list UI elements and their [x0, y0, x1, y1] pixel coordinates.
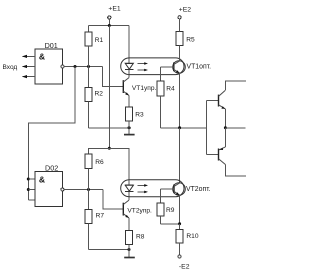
- node dot D02 output / R6 / R7: [87, 188, 90, 191]
- svg-text:VT2опт.: VT2опт.: [186, 186, 211, 193]
- D02 input pin 3: [28, 199, 35, 201]
- D01 input pin 1 with arrow: [22, 55, 35, 58]
- svg-text:R3: R3: [135, 112, 144, 119]
- wire output base bus: [206, 101, 208, 155]
- transistor VT2упр: [123, 192, 152, 231]
- node dot VT1опт emitter / VT2опт collector: [178, 126, 181, 129]
- wire bottom ground rail: [89, 249, 130, 251]
- node dot D01 output to D02: [74, 65, 77, 68]
- optocoupler 1 body: [121, 58, 184, 75]
- svg-text:R4: R4: [166, 85, 175, 92]
- node dot +E1 lower branch: [108, 147, 111, 150]
- optocoupler 2 body: [121, 180, 184, 197]
- svg-text:R5: R5: [186, 36, 195, 43]
- resistor R9: [157, 203, 175, 224]
- svg-text:-E2: -E2: [179, 263, 190, 270]
- D01 input pin 2 with arrow: [22, 65, 35, 68]
- resistor R10: [176, 224, 199, 255]
- resistor R5: [176, 32, 195, 61]
- wire +E1 down to LED1 anode: [128, 26, 130, 64]
- svg-text:VT1упр.: VT1упр.: [132, 85, 157, 92]
- wire Z-bend D02 output to VT2upr base: [103, 190, 123, 210]
- svg-text:R9: R9: [166, 207, 175, 214]
- resistor R2: [85, 67, 103, 128]
- svg-text:VT1опт.: VT1опт.: [187, 64, 212, 71]
- transistor Q4 output bottom: [207, 128, 247, 176]
- ground symbol 1: [124, 128, 135, 135]
- D02 input pin 1: [28, 178, 35, 180]
- wire +E1 rail horizontal: [89, 25, 130, 27]
- svg-text:R8: R8: [136, 233, 145, 240]
- transistor Q3 output top: [207, 81, 247, 128]
- gate D01: [35, 41, 64, 84]
- resistor R4: [157, 81, 175, 128]
- supply +E1 terminal: [108, 5, 121, 25]
- node dot VT2опт emitter / R10: [178, 222, 181, 225]
- svg-text:&: &: [39, 52, 45, 62]
- svg-text:R1: R1: [95, 37, 104, 44]
- svg-text:D02: D02: [45, 164, 58, 173]
- svg-text:VT2упр.: VT2упр.: [127, 207, 152, 214]
- svg-text:&: &: [39, 174, 45, 184]
- wire output middle: [225, 127, 245, 129]
- wire VT1опт emitter down: [179, 73, 181, 128]
- wire VT2опт collector up: [179, 128, 181, 183]
- resistor R6: [85, 154, 104, 190]
- wire signal rail segment B: [161, 127, 207, 129]
- svg-text:R6: R6: [95, 159, 104, 166]
- node dot D02 input 1: [27, 178, 30, 181]
- wire D02 output: [64, 189, 103, 191]
- transistor VT1упр: [123, 70, 156, 107]
- resistor R1: [85, 26, 104, 67]
- resistor R8: [126, 231, 145, 250]
- svg-text:+E2: +E2: [179, 6, 192, 13]
- phototransistor VT2опт: [161, 183, 211, 203]
- svg-text:D01: D01: [45, 41, 58, 50]
- optocoupler 2 arrows: [137, 184, 148, 193]
- wire +E1 long vertical to lower section: [108, 26, 110, 149]
- wire branch to LED2 anode: [109, 148, 129, 185]
- D02 input pin 2: [28, 189, 35, 191]
- wire from D01 output down to D02 inputs: [28, 67, 75, 201]
- wire branch to R6: [89, 148, 110, 154]
- wire R9 to VT2опт emitter: [161, 223, 180, 225]
- node dot output emitters: [224, 126, 227, 129]
- wire D01 output: [64, 66, 103, 68]
- node dot D02 input 2: [27, 188, 30, 191]
- svg-text:Вход: Вход: [3, 64, 18, 71]
- svg-text:R10: R10: [186, 233, 198, 240]
- node dot ground rail: [128, 126, 131, 129]
- svg-text:R2: R2: [95, 90, 104, 97]
- resistor R7: [85, 190, 104, 250]
- node dot +E1: [108, 24, 111, 27]
- wire ground rail segment A: [89, 127, 132, 129]
- node dot D01 output / R1 / R2: [87, 65, 90, 68]
- gate D02: [35, 164, 64, 207]
- svg-text:+E1: +E1: [108, 5, 121, 12]
- supply -E2 terminal: [178, 255, 190, 270]
- LED1 diode: [125, 63, 134, 69]
- svg-text:R7: R7: [96, 213, 105, 220]
- wire VT2опт emitter down: [179, 195, 181, 224]
- LED2 diode: [125, 185, 134, 191]
- phototransistor VT1опт: [161, 61, 212, 81]
- supply +E2 terminal: [178, 6, 191, 31]
- node dot R8 bottom: [128, 248, 131, 251]
- D01 input pin 3 with arrow: [22, 75, 35, 78]
- resistor R3: [126, 107, 145, 128]
- ground symbol 2: [124, 250, 135, 258]
- wire Z-bend D01 output to VT1upr base: [103, 67, 124, 87]
- optocoupler 1 arrows: [137, 62, 148, 71]
